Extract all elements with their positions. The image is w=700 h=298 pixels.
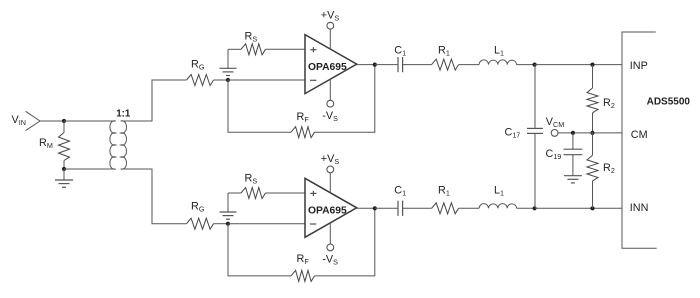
input V_IN label — [12, 114, 26, 127]
transformer T1 ratio label 1:1 — [116, 108, 131, 119]
svg-text:1:1: 1:1 — [116, 108, 131, 119]
wire INN rail to ADC — [535, 207, 622, 209]
resistor R_G label (2) — [191, 201, 205, 214]
svg-text:RS: RS — [245, 173, 258, 186]
node INP at R_2 — [590, 63, 594, 67]
svg-text:R1: R1 — [438, 45, 450, 58]
svg-text:VIN: VIN — [12, 114, 26, 127]
svg-text:L1: L1 — [494, 45, 504, 58]
svg-text:RF: RF — [297, 253, 310, 266]
resistor R_G label (1) — [191, 59, 205, 72]
resistor R_2 bottom label — [603, 162, 615, 175]
svg-text:RG: RG — [191, 201, 205, 214]
wire node A to transformer primary top — [64, 120, 116, 122]
node C_19 junction — [571, 131, 575, 135]
node B junction — [62, 167, 66, 171]
node CM junction right — [590, 131, 594, 135]
op-amp U1 OPA695 — [305, 35, 357, 94]
node filter output (2) — [533, 206, 537, 210]
wire secondary bottom to R_G2 — [121, 169, 187, 224]
svg-text:R1: R1 — [438, 184, 450, 197]
ADC pin label INP — [630, 60, 648, 72]
capacitor C_1 label (2) — [394, 184, 406, 197]
wire feedback right (2) — [315, 208, 375, 276]
resistor R_S (2) — [228, 188, 305, 199]
svg-text:C1: C1 — [394, 45, 406, 58]
resistor R_1 (2) — [432, 203, 480, 214]
inductor L_1 (1) — [479, 60, 534, 65]
capacitor C_17 — [527, 65, 543, 209]
ADC ADS5500 device label — [647, 97, 691, 108]
ground at R_S (1) — [220, 49, 237, 75]
resistor R_1 label (2) — [438, 184, 450, 197]
resistor R_2 bottom — [587, 133, 598, 208]
ADC pin label CM — [631, 129, 648, 141]
node A junction — [62, 119, 66, 123]
svg-text:INN: INN — [630, 202, 649, 214]
inductor L_1 label (2) — [494, 184, 504, 197]
resistor R_F label (2) — [297, 253, 310, 266]
resistor R_F (1) — [291, 127, 315, 138]
node output (1) — [373, 63, 377, 67]
common-mode terminal V_CM — [551, 130, 558, 137]
svg-text:-VS: -VS — [322, 254, 338, 267]
wire V_IN to node A — [40, 120, 64, 122]
ADC ADS5500 box — [622, 32, 657, 248]
input source arrow — [26, 111, 40, 130]
capacitor C_1 label (1) — [394, 45, 406, 58]
svg-text:RS: RS — [245, 31, 258, 44]
ground below C_19 — [564, 176, 582, 183]
svg-text:VCM: VCM — [546, 116, 564, 129]
negative supply -V_S (1) — [322, 79, 338, 123]
resistor R_2 top label — [603, 97, 615, 110]
node filter output (1) — [533, 63, 537, 67]
svg-text:INP: INP — [630, 60, 648, 72]
ADC pin label INN — [630, 202, 649, 214]
svg-text:+VS: +VS — [321, 10, 340, 23]
node INN at R_2 — [590, 206, 594, 210]
resistor R_S label (1) — [245, 31, 258, 44]
op-amp U2 OPA695 — [305, 178, 357, 237]
svg-text:C17: C17 — [505, 127, 521, 140]
capacitor C_17 label — [505, 127, 521, 140]
svg-text:R2: R2 — [603, 97, 615, 110]
svg-text:ADS5500: ADS5500 — [647, 97, 691, 108]
ground below R_M — [55, 169, 73, 187]
negative supply -V_S (2) — [322, 223, 338, 267]
resistor R_F (2) — [291, 270, 315, 281]
svg-text:L1: L1 — [494, 184, 504, 197]
transformer T1 primary winding — [110, 121, 116, 169]
wire feedback left (2) — [228, 224, 291, 276]
capacitor C_1 (2) — [375, 201, 432, 216]
svg-text:RG: RG — [191, 59, 205, 72]
svg-text:RF: RF — [297, 111, 310, 124]
node output (2) — [373, 206, 377, 210]
svg-text:C19: C19 — [546, 148, 562, 161]
resistor R_M — [59, 121, 70, 169]
capacitor C_19 label — [546, 148, 562, 161]
wire INP rail to ADC — [535, 64, 622, 66]
positive supply +V_S (1) — [321, 10, 340, 50]
svg-text:R2: R2 — [603, 162, 615, 175]
resistor R_S label (2) — [245, 173, 258, 186]
wire op-amp output (2) — [357, 207, 375, 209]
wire feedback left (1) — [228, 80, 291, 132]
inductor L_1 (2) — [479, 204, 534, 209]
svg-text:+VS: +VS — [321, 153, 340, 166]
svg-text:CM: CM — [631, 129, 648, 141]
capacitor C_1 (1) — [375, 57, 432, 72]
resistor R_G (2) — [187, 218, 229, 229]
inductor L_1 label (1) — [494, 45, 504, 58]
wire V_CM to ADC CM pin — [558, 132, 622, 134]
transformer T1 secondary winding — [121, 121, 127, 169]
node inverting input (2) — [226, 222, 230, 226]
resistor R_2 top — [587, 65, 598, 133]
common-mode terminal V_CM label — [546, 116, 564, 129]
resistor R_1 (1) — [432, 59, 480, 70]
resistor R_S (1) — [228, 44, 305, 55]
node inverting input (1) — [226, 78, 230, 82]
svg-text:C1: C1 — [394, 184, 406, 197]
ground at R_S (2) — [220, 193, 237, 219]
wire node to op-amp inverting input (1) — [228, 79, 305, 81]
svg-text:OPA695: OPA695 — [308, 206, 347, 217]
resistor R_F label (1) — [297, 111, 310, 124]
wire op-amp output (1) — [357, 64, 375, 66]
positive supply +V_S (2) — [321, 153, 340, 193]
resistor R_1 label (1) — [438, 45, 450, 58]
wire node to op-amp inverting input (2) — [228, 223, 305, 225]
svg-text:-VS: -VS — [322, 110, 338, 123]
svg-text:RM: RM — [39, 137, 53, 150]
svg-text:OPA695: OPA695 — [308, 62, 347, 73]
resistor R_G (1) — [187, 75, 229, 86]
capacitor C_19 — [564, 133, 583, 176]
wire node B to transformer primary bottom — [64, 168, 116, 170]
wire secondary top to R_G1 — [121, 80, 187, 121]
resistor R_M label — [39, 137, 53, 150]
wire feedback right (1) — [315, 65, 375, 133]
